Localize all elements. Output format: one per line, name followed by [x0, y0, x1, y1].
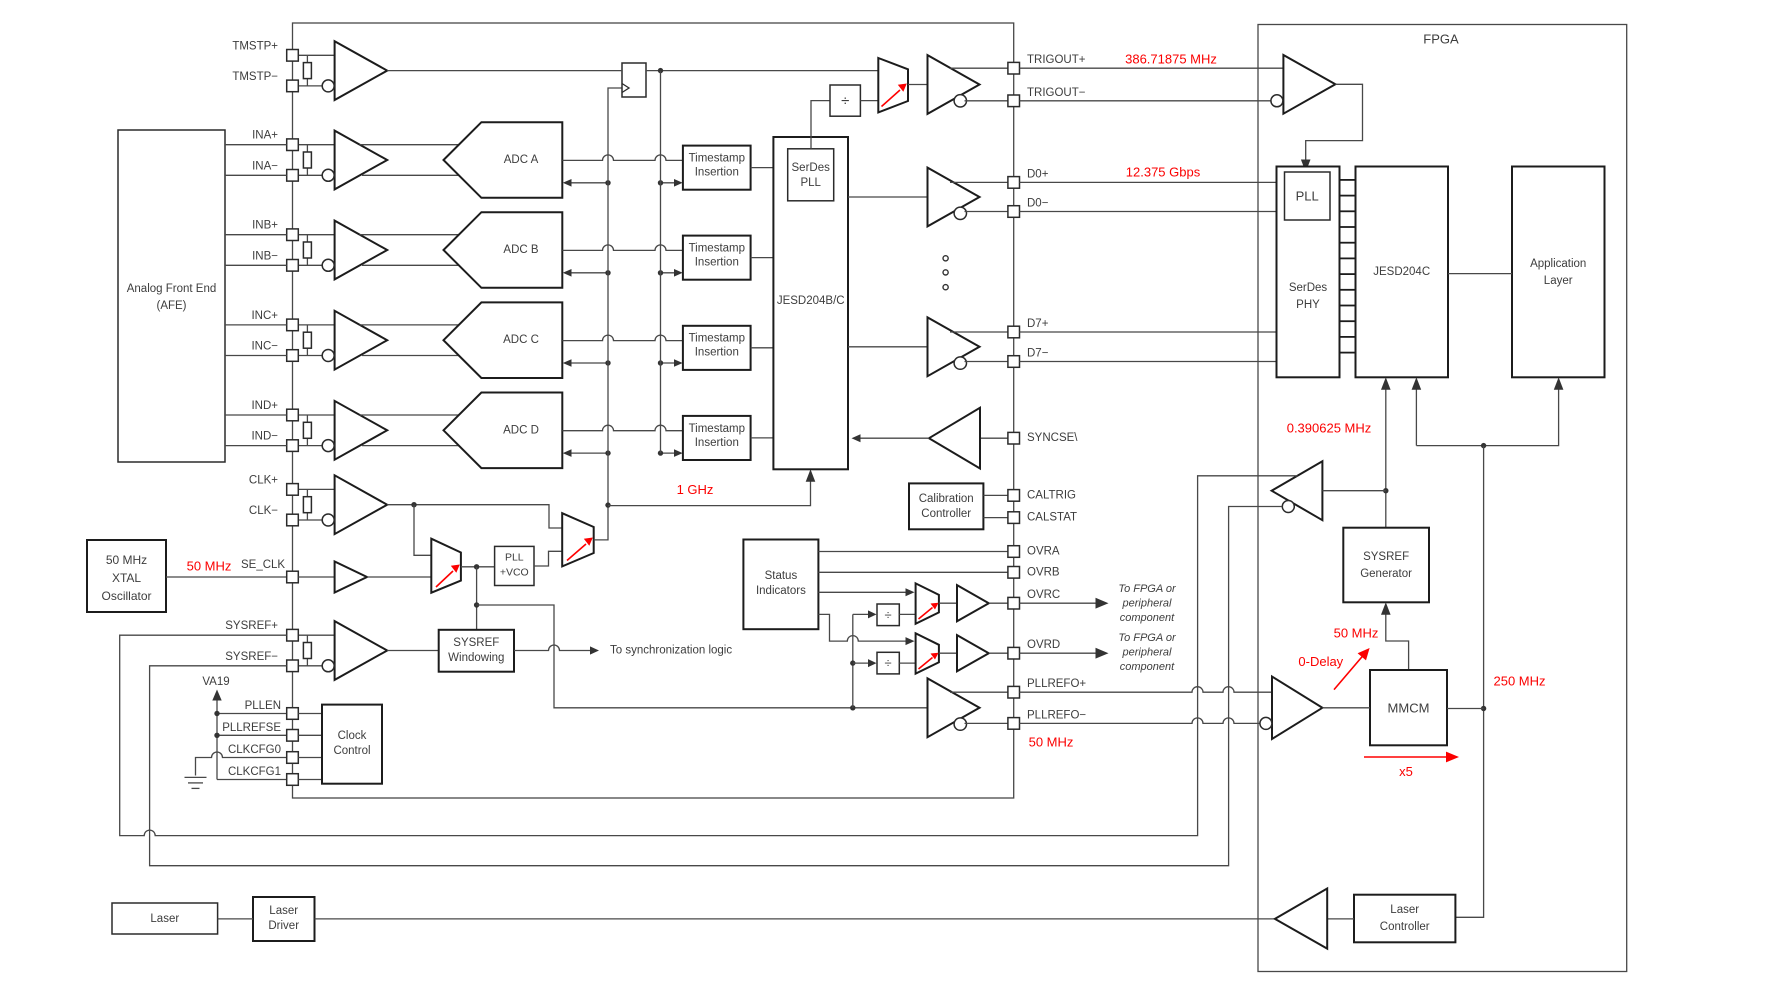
ADC D — [444, 393, 563, 469]
svg-text:Control: Control — [333, 745, 370, 757]
svg-text:VA19: VA19 — [202, 676, 229, 688]
svg-text:TMSTP+: TMSTP+ — [232, 40, 278, 52]
pin SYSREF− — [287, 660, 299, 672]
svg-text:0.390625 MHz: 0.390625 MHz — [1287, 421, 1372, 436]
wire PLL+VCO output to mux M2 bottom input — [534, 551, 562, 566]
red 0-delay arrow — [1334, 656, 1363, 690]
svg-text:Insertion: Insertion — [695, 167, 739, 179]
junction 1 GHz rail — [605, 502, 610, 507]
svg-text:1 GHz: 1 GHz — [677, 482, 714, 497]
wire JESD204B/C to D7 driver — [848, 346, 928, 348]
wire into divider DIV4 — [853, 613, 872, 615]
svg-text:12.375 Gbps: 12.375 Gbps — [1126, 165, 1201, 180]
pin CALTRIG — [1008, 490, 1020, 502]
wire SYNCSE pin to buffer — [980, 437, 1008, 439]
pin TRIGOUT− — [1008, 95, 1020, 107]
svg-text:Layer: Layer — [1544, 275, 1573, 287]
svg-text:ADC B: ADC B — [503, 244, 538, 256]
pin INB− — [287, 260, 299, 272]
divider DIV4 — [877, 604, 899, 626]
buffer SYNCSE (receiver) — [929, 408, 980, 469]
Timestamp Insertion box B — [683, 236, 751, 280]
svg-text:PLLREFO−: PLLREFO− — [1027, 709, 1086, 721]
wire JESD204C to Application Layer — [1448, 273, 1512, 275]
Timestamp Insertion box D — [683, 416, 751, 460]
serdes to jesd ladder bus — [1340, 180, 1356, 353]
Timestamp Insertion box C — [683, 326, 751, 370]
wire diff pair buffer to ADC C — [360, 324, 460, 326]
svg-text:To FPGA orperipheralcomponent: To FPGA orperipheralcomponent — [1118, 632, 1177, 673]
svg-text:Generator: Generator — [1360, 568, 1412, 580]
wire OVRD to pin — [989, 652, 1008, 654]
pin INC− — [287, 350, 299, 362]
wire D0+ to FPGA — [1020, 181, 1277, 183]
svg-text:ADC A: ADC A — [504, 154, 539, 166]
wire Timestamp A to JESD204B/C — [751, 167, 774, 169]
wire 1 GHz line to JESD204B/C — [608, 474, 811, 506]
svg-text:SYSREF−: SYSREF− — [225, 651, 278, 663]
pin D7+ — [1008, 326, 1020, 338]
svg-text:Analog Front End: Analog Front End — [127, 283, 217, 295]
pin PLLREFO− — [1008, 718, 1020, 730]
buffer SYSREF input amp — [335, 621, 388, 680]
wire ADC C output to Timestamp Insertion (hops) — [562, 335, 683, 340]
INA+/INA- pin wires and resistor — [298, 144, 334, 146]
wire SE_CLK buffer to mux M1 bottom input — [367, 576, 431, 578]
wire OVR to external — [1020, 652, 1098, 654]
INB+/INB- pin wires and resistor — [298, 234, 334, 236]
SerDes PLL box — [788, 149, 834, 201]
svg-text:INA−: INA− — [252, 160, 278, 172]
svg-text:+VCO: +VCO — [500, 567, 529, 579]
svg-text:CLK−: CLK− — [249, 505, 278, 517]
wire DIV4 to mux M4 — [899, 613, 915, 615]
pin INC+ — [287, 319, 299, 331]
wire timestamp strobe into Timestamp Insertion B — [661, 272, 679, 274]
svg-text:SYSREF: SYSREF — [1363, 551, 1409, 563]
wire SE_CLK pin to buffer — [298, 576, 334, 578]
MMCM box — [1370, 670, 1447, 745]
wire PLLEN — [217, 713, 287, 715]
wire OVRD status to mux M5 (hop) — [818, 614, 905, 641]
SYSREF Generator box — [1343, 528, 1429, 603]
buffer INC input amp — [335, 311, 388, 370]
pin TMSTP− — [287, 80, 299, 92]
svg-text:PLLREFO+: PLLREFO+ — [1027, 678, 1086, 690]
wire Timestamp D to JESD204B/C — [751, 437, 774, 439]
svg-text:Windowing: Windowing — [448, 652, 504, 664]
svg-text:D0+: D0+ — [1027, 168, 1049, 180]
svg-text:IND−: IND− — [251, 431, 278, 443]
buffer FPGA trigger receiver — [1283, 55, 1335, 114]
svg-text:OVRC: OVRC — [1027, 589, 1060, 601]
svg-text:TRIGOUT−: TRIGOUT− — [1027, 87, 1086, 99]
wire CLKCFG0 to Clock Control — [298, 757, 322, 759]
pin OVRA — [1008, 546, 1020, 558]
SE_CLK pin — [287, 571, 299, 583]
output driver D0 — [928, 168, 980, 227]
termination resistor TMSTP — [303, 63, 311, 79]
svg-text:JESD204B/C: JESD204B/C — [777, 295, 845, 307]
flip-flop (timestamp capture) — [622, 63, 646, 97]
svg-text:Insertion: Insertion — [695, 347, 739, 359]
pin TMSTP+ — [287, 50, 299, 62]
SYSREF- feedback wire — [150, 507, 1283, 866]
wire clock into ADC D — [567, 452, 608, 454]
termination resistor IND — [303, 422, 311, 438]
wire mux M3 to TRIGOUT driver — [908, 84, 928, 86]
wire OVRA — [818, 551, 1008, 553]
svg-text:INB−: INB− — [252, 250, 278, 262]
wire diff pair buffer to ADC A — [360, 144, 460, 146]
pin D7− — [1008, 356, 1020, 368]
AFE to input pin wires — [225, 145, 287, 446]
wire into divider DIV5 — [853, 662, 872, 664]
JESD204B/C box — [773, 137, 848, 469]
wire MMCM to SYSREF Generator — [1386, 607, 1409, 671]
PLL +VCO box — [495, 546, 534, 585]
wire ADC A output to Timestamp Insertion (hops) — [562, 155, 683, 161]
buffer IND input amp — [335, 401, 388, 460]
svg-text:FPGA: FPGA — [1423, 32, 1459, 47]
wire ADC B output to Timestamp Insertion (hops) — [562, 245, 683, 251]
svg-text:MMCM: MMCM — [1388, 700, 1430, 715]
buffer PLLREFO receiver (FPGA) — [1272, 677, 1322, 740]
termination resistor INC — [303, 332, 311, 348]
svg-text:Timestamp: Timestamp — [689, 423, 745, 435]
mux M1 output to SYSREF windowing / PLLREFO tap — [476, 567, 478, 630]
wire SerDes PLL to divider — [811, 101, 830, 149]
pin IND+ — [287, 409, 299, 421]
wire CLK buffer output — [387, 505, 562, 528]
Status Indicators box — [743, 540, 818, 630]
wire CLKCFG0 to ground (hop over VA19) — [196, 752, 287, 775]
VA19 supply arrow — [216, 698, 218, 780]
svg-text:CLKCFG1: CLKCFG1 — [228, 766, 281, 778]
svg-text:÷: ÷ — [885, 607, 892, 622]
SerDes PHY box — [1277, 167, 1340, 378]
ADC A — [444, 122, 563, 198]
svg-text:÷: ÷ — [841, 92, 849, 109]
svg-text:Laser: Laser — [1390, 904, 1419, 916]
svg-text:To FPGA orperipheralcomponent: To FPGA orperipheralcomponent — [1118, 583, 1177, 624]
lane ellipsis dots — [943, 256, 948, 261]
wire clock into ADC A — [567, 182, 608, 184]
pin D0− — [1008, 206, 1020, 218]
svg-text:Timestamp: Timestamp — [689, 153, 745, 165]
buffer TMSTP input amp — [335, 41, 388, 100]
svg-text:250 MHz: 250 MHz — [1493, 674, 1545, 689]
wire Laser Driver to FPGA laser buffer — [315, 918, 1275, 920]
svg-text:TMSTP−: TMSTP− — [232, 71, 278, 83]
pin TRIGOUT+ — [1008, 62, 1020, 74]
svg-text:Timestamp: Timestamp — [689, 243, 745, 255]
red x5 arrow — [1364, 756, 1448, 758]
svg-text:D7−: D7− — [1027, 348, 1049, 360]
wire PLLREFO- — [965, 722, 1008, 724]
wire D7- — [965, 361, 1008, 363]
FPGA outline — [1258, 25, 1627, 972]
svg-text:Application: Application — [1530, 258, 1586, 270]
ADC B — [444, 212, 563, 288]
wire PLLEN to Clock Control — [298, 713, 322, 715]
SYSREF+ feedback wire — [120, 476, 1298, 836]
output driver PLLREFO — [928, 678, 980, 737]
svg-text:386.71875 MHz: 386.71875 MHz — [1125, 52, 1217, 67]
svg-text:SYNCSE\: SYNCSE\ — [1027, 432, 1078, 444]
termination resistor CLK — [303, 497, 311, 513]
svg-text:PLL: PLL — [1296, 189, 1319, 204]
svg-text:PLL: PLL — [505, 552, 524, 564]
wire D7+ to FPGA — [1020, 331, 1277, 333]
buffer OVRC — [957, 585, 989, 621]
pin OVRB — [1008, 567, 1020, 579]
buffer SE_CLK — [335, 562, 367, 593]
JESD204C box — [1356, 167, 1449, 378]
svg-text:Oscillator: Oscillator — [101, 589, 151, 603]
wire Timestamp B to JESD204B/C — [751, 257, 774, 259]
wire core clock to Application Layer — [1416, 382, 1558, 446]
PLL box (FPGA) — [1285, 172, 1331, 220]
wire PLLREFSE — [217, 734, 287, 736]
wire SYNCSE into JESD204B/C — [856, 437, 929, 439]
svg-text:CLK+: CLK+ — [249, 474, 278, 486]
TMSTP+/TMSTP- pin wires and resistor — [298, 54, 334, 56]
pin SYSREF+ — [287, 629, 299, 641]
svg-text:TRIGOUT+: TRIGOUT+ — [1027, 54, 1086, 66]
wire diff pair buffer to ADC D — [360, 414, 460, 416]
wire TRIGOUT+ to FPGA — [1020, 67, 1284, 69]
wire mux M5 to OVRD buffer — [939, 652, 957, 654]
wire TRIGOUT- — [965, 100, 1008, 102]
svg-text:Calibration: Calibration — [919, 493, 974, 505]
wire SYSREF gen out to driver — [1322, 490, 1385, 492]
wire CALTRIG — [983, 494, 1008, 496]
svg-text:Indicators: Indicators — [756, 585, 806, 597]
Timestamp Insertion box A — [683, 146, 751, 190]
wire CLKCFG1 to Clock Control — [298, 779, 322, 781]
wire D0- to FPGA — [1020, 211, 1277, 213]
divider (trigger) — [830, 85, 860, 116]
wire core clock to JESD204C — [1415, 382, 1417, 446]
svg-text:ADC C: ADC C — [503, 334, 539, 346]
wire Laser Controller to laser buffer — [1327, 918, 1354, 920]
wire Laser to Laser Driver — [218, 918, 253, 920]
wire windowing output to synchronization logic (hop) — [514, 645, 595, 651]
pin PLLREFSE — [287, 730, 299, 742]
svg-text:SYSREF: SYSREF — [453, 637, 499, 649]
mux M4 — [916, 583, 939, 623]
wire timestamp strobe into Timestamp Insertion D — [661, 452, 679, 454]
svg-text:SE_CLK: SE_CLK — [241, 559, 285, 571]
svg-text:OVRD: OVRD — [1027, 639, 1060, 651]
INC+/INC- pin wires and resistor — [298, 324, 334, 326]
wire D7- to FPGA — [1020, 361, 1277, 363]
svg-text:CLKCFG0: CLKCFG0 — [228, 744, 281, 756]
wire JESD204B/C to D0 driver — [848, 196, 928, 198]
wire OVR to external — [1020, 602, 1098, 604]
mux M2 (clock select) — [562, 513, 594, 566]
svg-text:PLL: PLL — [800, 177, 821, 189]
pin INA− — [287, 170, 299, 182]
svg-text:SerDes: SerDes — [1289, 282, 1328, 294]
svg-text:CALTRIG: CALTRIG — [1027, 489, 1076, 501]
mux M1 (reference select) — [431, 539, 461, 593]
svg-text:SerDes: SerDes — [792, 162, 831, 174]
svg-text:ADC D: ADC D — [503, 424, 539, 436]
svg-text:INC+: INC+ — [251, 310, 278, 322]
timestamp distribution rail — [660, 71, 662, 454]
wire trigger receiver to FPGA PLL — [1306, 84, 1363, 167]
ground — [185, 777, 207, 788]
svg-text:Status: Status — [765, 570, 798, 582]
pin OVRC — [1008, 597, 1020, 609]
svg-text:INB+: INB+ — [252, 220, 278, 232]
wire MMCM output — [1447, 708, 1484, 710]
main ADC chip outline — [293, 23, 1014, 798]
Application Layer box — [1512, 167, 1605, 378]
pin D0+ — [1008, 177, 1020, 189]
wire clock into ADC B — [567, 272, 608, 274]
Calibration Controller box — [909, 483, 983, 529]
termination resistor SYSREF — [303, 643, 311, 659]
IND+/IND- pin wires and resistor — [298, 414, 334, 416]
wire OVRB — [818, 571, 1008, 573]
wire diff pair buffer to ADC B — [360, 234, 460, 236]
svg-text:Controller: Controller — [921, 508, 971, 520]
mux M3 (trigger out select) — [878, 58, 908, 112]
wire TMSTP buffer to flip-flop — [387, 70, 622, 72]
svg-text:50 MHz: 50 MHz — [106, 553, 147, 567]
wire TRIGOUT- to FPGA — [1020, 100, 1271, 102]
buffer INB input amp — [335, 221, 388, 280]
wire mux M2 output up to device clock rail — [594, 88, 622, 540]
svg-text:To synchronization logic: To synchronization logic — [610, 645, 732, 657]
wire D0+ — [950, 181, 1008, 183]
Laser Controller box — [1354, 895, 1455, 943]
svg-text:PLLREFSE: PLLREFSE — [222, 722, 281, 734]
pin INB+ — [287, 229, 299, 241]
pin CLK+ — [287, 484, 299, 496]
buffer OVRD — [957, 635, 989, 671]
svg-text:JESD204C: JESD204C — [1373, 266, 1430, 278]
svg-text:PLLEN: PLLEN — [245, 700, 281, 712]
wire timestamp strobe into Timestamp Insertion C — [661, 362, 679, 364]
wire SYSREF gen to JESD204C — [1385, 382, 1387, 528]
svg-text:INA+: INA+ — [252, 130, 278, 142]
svg-text:PHY: PHY — [1296, 299, 1320, 311]
pin PLLEN — [287, 708, 299, 720]
svg-text:OVRA: OVRA — [1027, 546, 1060, 558]
wire DIV5 to mux M5 — [899, 662, 915, 664]
core clock rail — [1455, 446, 1483, 918]
svg-text:Clock: Clock — [338, 730, 367, 742]
wire PLLREFSE to Clock Control — [298, 734, 322, 736]
wire CALSTAT — [983, 517, 1008, 519]
wire PLLREFO- to FPGA (hops) — [1020, 718, 1260, 724]
pin OVRD — [1008, 647, 1020, 659]
svg-text:Timestamp: Timestamp — [689, 333, 745, 345]
buffer INA input amp — [335, 131, 388, 190]
svg-text:0-Delay: 0-Delay — [1298, 654, 1343, 669]
svg-text:Controller: Controller — [1380, 921, 1430, 933]
pin PLLREFO+ — [1008, 686, 1020, 698]
pin CLKCFG0 — [287, 752, 299, 764]
svg-text:OVRB: OVRB — [1027, 566, 1060, 578]
svg-text:CALSTAT: CALSTAT — [1027, 512, 1077, 524]
svg-text:50 MHz: 50 MHz — [1029, 735, 1074, 750]
Analog Front End (AFE) box — [118, 130, 225, 462]
divider clock rail — [852, 614, 854, 707]
svg-text:D0−: D0− — [1027, 198, 1049, 210]
wire mux M1 output to PLL+VCO — [461, 566, 495, 568]
wire OVRC to pin — [989, 602, 1008, 604]
SYSREF Windowing box — [439, 630, 514, 672]
svg-text:(AFE): (AFE) — [156, 300, 186, 312]
Clock Control box — [322, 705, 382, 784]
output driver D7 — [928, 317, 980, 376]
output driver TRIGOUT — [928, 55, 980, 114]
svg-text:Insertion: Insertion — [695, 437, 739, 449]
pin IND− — [287, 440, 299, 452]
wire Timestamp C to JESD204B/C — [751, 347, 774, 349]
svg-text:Insertion: Insertion — [695, 257, 739, 269]
CLK+/CLK- pin wires and resistor — [298, 488, 334, 490]
ADC C — [444, 302, 563, 378]
pin CLKCFG1 — [287, 774, 299, 786]
svg-text:Laser: Laser — [269, 905, 298, 917]
buffer SYSREF driver (FPGA) — [1272, 461, 1323, 520]
wire OVRC status to mux M4 — [818, 591, 910, 593]
svg-text:INC−: INC− — [251, 341, 278, 353]
wire CLK to mux M1 top input — [414, 505, 431, 556]
wire 50MHz tap to PLLREFO driver — [477, 605, 928, 708]
svg-text:IND+: IND+ — [251, 400, 278, 412]
wire D0- — [965, 211, 1008, 213]
mux M5 — [916, 633, 939, 673]
svg-text:x5: x5 — [1399, 764, 1413, 779]
Laser box — [112, 903, 218, 934]
buffer CLK input amp — [335, 475, 388, 534]
wire mux M4 to OVRC buffer — [939, 602, 957, 604]
wire CLKCFG1 — [217, 779, 287, 781]
termination resistor INA — [303, 152, 311, 168]
pin SYNCSE\ — [1008, 432, 1020, 444]
wire SYSREF buffer to windowing — [387, 650, 439, 652]
pin CALSTAT — [1008, 512, 1020, 524]
pin CLK− — [287, 514, 299, 526]
SYSREF+/SYSREF- pin wires and resistor — [298, 634, 334, 636]
wire flip-flop output to trigger mux — [646, 70, 878, 72]
Laser Driver box — [253, 897, 315, 941]
wire ADC D output to Timestamp Insertion (hops) — [562, 425, 683, 430]
pin INA+ — [287, 139, 299, 151]
wire timestamp strobe into Timestamp Insertion A — [661, 182, 679, 184]
svg-text:÷: ÷ — [885, 656, 892, 671]
wire receiver to MMCM — [1322, 707, 1370, 709]
wire PLLREFO+ to FPGA (hops) — [1020, 687, 1273, 692]
wire TRIGOUT+ — [950, 67, 1008, 69]
wire clock into ADC C — [567, 362, 608, 364]
buffer laser driver (FPGA) — [1275, 889, 1327, 949]
svg-text:50 MHz: 50 MHz — [1334, 626, 1379, 641]
50 MHz XTAL Oscillator box — [87, 540, 166, 612]
svg-text:Driver: Driver — [268, 920, 299, 932]
svg-text:50 MHz: 50 MHz — [187, 559, 232, 574]
svg-text:SYSREF+: SYSREF+ — [225, 620, 278, 632]
termination resistor INB — [303, 242, 311, 258]
wire XTAL to SE_CLK pin — [166, 576, 287, 578]
